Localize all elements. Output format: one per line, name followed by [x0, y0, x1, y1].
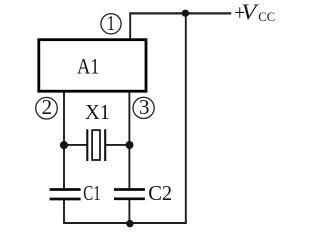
svg-text:A1: A1 — [77, 54, 100, 79]
svg-text:C1: C1 — [83, 181, 100, 205]
svg-text:X1: X1 — [85, 100, 110, 124]
svg-text:1: 1 — [107, 11, 115, 35]
svg-text:C2: C2 — [148, 181, 172, 205]
svg-text:2: 2 — [42, 95, 53, 119]
svg-text:CC: CC — [258, 9, 275, 24]
svg-text:3: 3 — [139, 95, 150, 119]
